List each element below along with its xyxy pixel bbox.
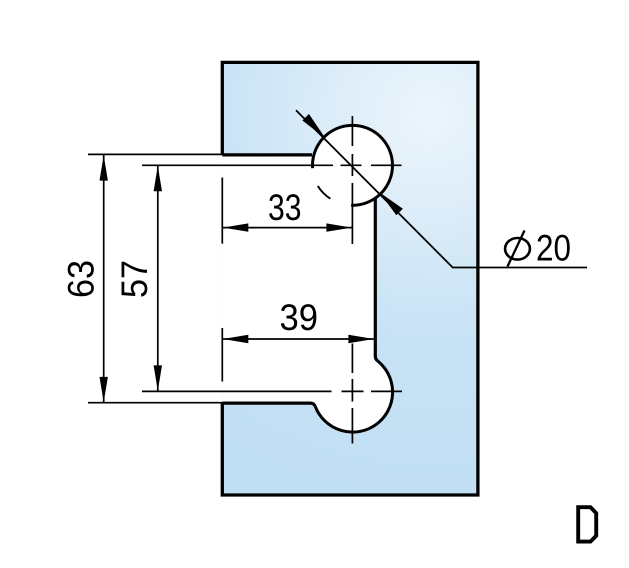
hole H1 outline arc: [312, 125, 392, 205]
dim 63 top extension: [88, 153, 222, 155]
cutout right edge: [375, 198, 377, 361]
hole H1 white fill: [313, 125, 393, 205]
dim 33 line: [222, 227, 352, 229]
dim 57 line: [157, 165, 159, 391]
dim 33 left arrow: [223, 223, 248, 231]
glass panel fill: [222, 62, 478, 495]
hole H2 white fill: [313, 352, 393, 432]
leader line diameter: [296, 110, 587, 267]
leader upper arrow: [303, 115, 324, 138]
slot cutout white area: [222, 155, 379, 403]
dim 39 left arrow: [223, 335, 248, 343]
centerline H2 vertical: [351, 344, 353, 444]
dim 39 right arrow: [348, 335, 373, 343]
diameter value text: [538, 235, 570, 261]
leader lower arrow: [381, 194, 403, 215]
dim 33 right arrow: [326, 223, 351, 231]
dim 57 text: [122, 262, 148, 297]
dim 57 bottom arrow: [154, 365, 162, 390]
centerline H1 horizontal: [142, 164, 402, 166]
dim 39 text: [281, 304, 317, 330]
letter D: [578, 507, 596, 541]
cutout top edge: [222, 153, 312, 156]
dim 63 top arrow: [100, 155, 108, 180]
hole H1 thin arc fragment: [318, 186, 331, 199]
dim 63 bottom extension: [88, 402, 222, 404]
cutout bottom edge: [222, 403, 315, 406]
dim 57 top arrow: [154, 166, 162, 191]
dim 63 bottom arrow: [100, 377, 108, 402]
panel outline: [222, 62, 478, 495]
dim 39 line: [222, 338, 374, 340]
centerline H1 vertical: [351, 116, 353, 244]
dim 63 text: [68, 262, 94, 297]
dim 39 left extension: [221, 328, 223, 382]
hole H2 outline arc: [315, 361, 392, 432]
dim 33 text: [269, 194, 300, 220]
centerline H2 horizontal: [142, 390, 402, 392]
dim 63 line: [103, 155, 105, 403]
diameter symbol: [505, 231, 530, 267]
dim 33 left extension: [221, 178, 223, 244]
